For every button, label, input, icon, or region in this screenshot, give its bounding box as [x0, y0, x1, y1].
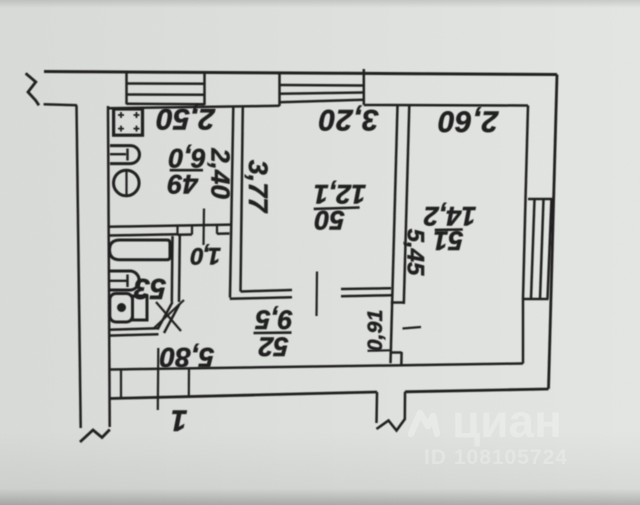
kitchen window inner frame line	[127, 93, 205, 96]
dimension label 3,20 room 50 width	[318, 103, 378, 136]
dimension label 2,40 kitchen depth	[206, 147, 236, 199]
bathroom number label 53	[134, 272, 166, 304]
bottom wall inner line	[110, 364, 523, 370]
wall break symbol bottom-left	[80, 430, 110, 443]
stove	[114, 109, 143, 135]
washbasin bowl	[110, 271, 139, 290]
room 50 window inner frame line	[280, 93, 364, 94]
vent duct cross stroke a	[153, 300, 184, 329]
room 50 south wall inner line right	[341, 287, 391, 290]
left exterior wall outer line	[77, 105, 81, 428]
kitchen number label 49	[168, 169, 199, 199]
kitchen south wall line	[108, 225, 231, 227]
room 51 window sill connector	[523, 298, 549, 301]
bathroom corner chamfer line b	[164, 304, 180, 333]
hallway number label 52	[258, 331, 288, 361]
top wall inner edge rooms 50-51	[364, 104, 528, 107]
room 50 window left jamb	[278, 72, 281, 106]
wall break symbol top-left	[26, 73, 39, 105]
pier edge vertical c	[216, 226, 218, 234]
closet north pier left segment	[178, 233, 193, 236]
partition room 50/51 east line lower	[400, 352, 403, 367]
room 51 door head connector	[391, 301, 404, 304]
left exterior wall inner line	[108, 106, 110, 427]
pier edge vertical a	[176, 226, 178, 234]
dimension label 2,60 room 51 width	[438, 105, 499, 138]
room 51 door sill connector	[390, 351, 401, 354]
top wall inner edge kitchen and pier	[108, 106, 280, 109]
dimension label 5,45 room 51 depth	[402, 229, 429, 276]
right exterior wall outer line	[549, 75, 558, 389]
dimension tick hallway side	[368, 349, 391, 352]
hallway area label 9,5	[254, 305, 293, 335]
pier edge vertical b	[191, 226, 193, 234]
room 51 number label 51	[433, 226, 463, 256]
room 50 number label 50	[315, 205, 345, 235]
toilet tank	[133, 296, 148, 320]
kitchen fraction bar	[170, 169, 203, 172]
dimension label 0,91	[363, 310, 387, 352]
closet west wall line	[178, 235, 181, 303]
top wall inner edge stub left	[44, 104, 77, 105]
room 50 window outer frame line	[280, 84, 364, 87]
right exterior wall inner line	[523, 106, 528, 364]
kitchen area label 6,0	[169, 143, 207, 173]
partition kitchen/room 50 west line	[230, 107, 233, 298]
room 50 door tick	[315, 272, 318, 317]
stove burner 3	[118, 126, 124, 132]
room 51 window frame line 1	[531, 199, 535, 299]
room 50 south wall inner line left	[241, 290, 293, 292]
kitchen window outer frame line	[127, 82, 205, 85]
closet area label 1,0	[190, 242, 221, 269]
closet north pier right segment	[217, 232, 230, 235]
bathroom corner chamfer line a	[158, 302, 173, 330]
room 51 area label 14,2	[424, 201, 477, 231]
room 51 window frame line 3	[548, 199, 552, 299]
room 51 window frame line 2	[540, 199, 544, 299]
room 50 fraction bar	[314, 208, 360, 209]
toilet drain dot	[117, 303, 126, 312]
washbasin divider line	[110, 280, 127, 282]
room 50 south wall outer line left	[230, 297, 292, 298]
bathroom south wall inner line	[109, 334, 159, 335]
room 50 window right jamb	[363, 69, 366, 105]
bathtub	[110, 240, 171, 260]
vent duct cross stroke b	[156, 302, 181, 331]
room 51 window head connector	[528, 198, 554, 201]
room 50 window sill line	[280, 100, 364, 103]
room 50 south wall outer line right	[341, 295, 392, 296]
stove burner 4	[134, 126, 140, 132]
bottom wall outer line left part	[110, 392, 377, 399]
kitchen window left jamb	[125, 72, 128, 105]
round basin divider line	[125, 170, 127, 195]
kitchen sink bowl	[110, 146, 140, 164]
partition room 50/51 east line upper	[404, 105, 410, 304]
stove burner 2	[134, 112, 140, 118]
partition kitchen/room 50 east line	[241, 107, 243, 292]
toilet bowl	[110, 294, 133, 323]
kitchen window right jamb	[203, 72, 206, 105]
dimension tick room 51 side	[403, 327, 422, 329]
top exterior wall	[44, 72, 557, 75]
room 50 area label 12,1	[314, 179, 367, 209]
kitchen door tick	[202, 209, 205, 246]
staircase label 1	[171, 404, 188, 437]
dimension label 2,50 kitchen width	[156, 102, 216, 135]
kitchen window sill line	[127, 103, 205, 106]
dimension label 3,77 room 50 depth	[243, 160, 273, 215]
bottom wall outer line right part	[405, 389, 549, 392]
entry door jamb tick right	[188, 369, 190, 397]
kitchen sink divider line	[110, 153, 126, 155]
bathroom north wall line	[108, 234, 177, 235]
bathroom east wall line	[171, 236, 174, 302]
room 51 fraction bar	[435, 228, 463, 231]
dimension tick 5.80	[157, 348, 160, 410]
dimension label 5,80 apartment width	[159, 342, 214, 373]
hallway fraction bar	[254, 331, 292, 334]
washbasin tap bar	[126, 275, 128, 288]
watermark cian logo	[411, 413, 437, 434]
entry opening right jamb	[404, 392, 407, 420]
round basin	[114, 170, 140, 196]
partition room 50/51 west line	[391, 105, 398, 363]
stove burner 1	[118, 112, 124, 118]
entry opening left jamb	[375, 392, 378, 423]
bathroom south wall outer line	[109, 328, 158, 330]
kitchen sink tap bar	[126, 149, 128, 161]
entry wall break zigzag	[377, 420, 405, 431]
entry door jamb tick left	[120, 370, 122, 399]
